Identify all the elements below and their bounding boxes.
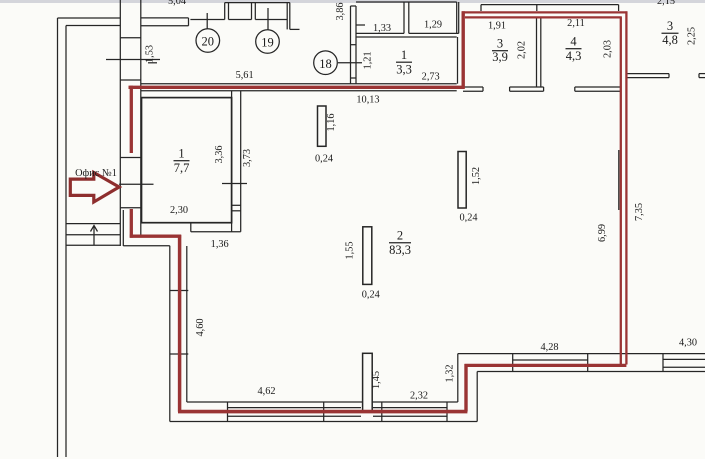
far right window tick [662, 354, 664, 372]
top corridor wall lower line [141, 25, 189, 27]
svg-text:3,73: 3,73 [242, 149, 253, 167]
wire left corner top inner [66, 25, 120, 27]
room 1 (7,7) outline [142, 98, 232, 223]
room 1,29 bottom wall [409, 32, 459, 34]
corridor south wall upper black line [141, 83, 457, 85]
svg-text:0,24: 0,24 [459, 213, 477, 224]
top niche right wall inner [289, 3, 291, 30]
room 2 east wall black segment [618, 150, 620, 210]
interior column 1,55 [363, 227, 372, 285]
svg-text:1,91: 1,91 [488, 21, 506, 32]
svg-text:3,9: 3,9 [492, 50, 508, 64]
top niche right tick [290, 28, 300, 30]
bottom window tick 2 [381, 402, 383, 422]
svg-text:1,21: 1,21 [362, 51, 373, 69]
room 2 west wall inner line [186, 246, 188, 402]
wall column A right line [140, 0, 142, 235]
red boundary east vertical outer [625, 11, 627, 364]
svg-text:1,32: 1,32 [445, 364, 456, 382]
rooms 3-4 bottom wall stub 1 lower [463, 90, 483, 92]
room 1,33 notch stub [356, 24, 365, 26]
svg-text:4,60: 4,60 [195, 318, 206, 336]
room label 1/7,7 bar [174, 160, 190, 162]
wall column A door jamb lower [120, 207, 141, 209]
svg-text:2,03: 2,03 [603, 40, 614, 58]
svg-text:2,15: 2,15 [657, 0, 675, 7]
west wall window jamb upper [170, 290, 189, 292]
divider rooms 3/4 left line [536, 19, 538, 88]
room 1,29 right wall inner [458, 2, 460, 33]
wire left corner top outer [58, 17, 121, 19]
top niche bottom edge right [255, 19, 287, 21]
stair step line 1 [66, 223, 120, 225]
bottom window mullion tick [323, 402, 325, 422]
svg-text:4: 4 [570, 35, 577, 49]
red boundary top-left horizontal [129, 86, 465, 89]
room label 4/4,3 bar [566, 48, 582, 50]
svg-text:10,13: 10,13 [356, 95, 379, 106]
svg-text:83,3: 83,3 [389, 243, 411, 257]
svg-text:19: 19 [261, 36, 274, 50]
right edge stub cap [698, 74, 700, 78]
room label 2/83,3 bar [389, 242, 411, 244]
wall column B tick lower [232, 210, 241, 212]
svg-text:0,24: 0,24 [315, 154, 333, 165]
lobby south wall line [123, 245, 170, 247]
rooms 3-4 bottom wall stub 2 lower [510, 90, 544, 92]
svg-text:2,02: 2,02 [517, 41, 528, 59]
svg-text:1,45: 1,45 [371, 371, 382, 389]
svg-text:3: 3 [497, 37, 503, 51]
bottom window tick 1 [227, 402, 229, 422]
svg-text:1: 1 [401, 48, 407, 62]
room 1,29 right wall outer [456, 2, 458, 33]
door dimension line at arrow [119, 183, 153, 185]
svg-text:1,53: 1,53 [145, 45, 156, 63]
wire left inner wall vertical [65, 26, 67, 458]
stair arrow head [91, 226, 98, 232]
room label 3/4,8 bar [662, 32, 679, 34]
rooms 3-4 top tick 2 [536, 5, 538, 11]
wall column A left line [119, 0, 121, 246]
dimension underline 1,53 [148, 62, 157, 64]
stub 3 left cap [574, 87, 576, 91]
divider wall 1,33/1,29 left [403, 2, 405, 33]
svg-text:0,24: 0,24 [362, 290, 380, 301]
rooms 3-4 bottom wall stub 3 lower [575, 90, 620, 92]
top corridor wall end cap [188, 18, 190, 26]
svg-text:7,7: 7,7 [174, 161, 190, 175]
wall column 1,45 in bottom wall [363, 353, 373, 411]
leader line room 20 [206, 13, 208, 29]
red boundary rooms34 left vertical [462, 11, 465, 89]
room label 1/3,3 bar [396, 61, 412, 63]
svg-text:2: 2 [397, 229, 403, 243]
south-east window glazing [513, 359, 588, 361]
red boundary left vertical upper [130, 86, 133, 153]
wall column B tick upper [232, 204, 241, 206]
bottom window tick 3 [446, 402, 448, 422]
rooms 3-4 bottom wall stub 3 upper [575, 86, 620, 88]
circle room 19 [256, 30, 280, 54]
rooms 3-4 top tick 3 [618, 5, 620, 11]
svg-text:4,8: 4,8 [662, 33, 678, 47]
red boundary step horizontal [130, 235, 181, 238]
top wall single segment [190, 19, 224, 21]
corridor south wall lower black line [141, 90, 457, 92]
south-east window tick right [587, 354, 589, 372]
svg-text:4,30: 4,30 [679, 338, 697, 349]
red boundary west long vertical [178, 235, 182, 412]
svg-text:Офис №1: Офис №1 [75, 168, 117, 179]
interior column 1,16 [318, 106, 327, 146]
bottom window glazing line c [373, 407, 447, 409]
svg-text:1,52: 1,52 [471, 167, 482, 185]
wall pair x350 top cap [351, 5, 357, 7]
stair step line 3 [66, 244, 120, 246]
divider wall 1,33/1,29 right [408, 2, 410, 33]
top niche top edge [225, 2, 290, 4]
svg-text:5,61: 5,61 [236, 70, 254, 81]
top niche mid wall left [251, 3, 253, 20]
room 1,33 bottom wall [356, 32, 404, 34]
step below room 1 horizontal [191, 231, 241, 233]
room 2 west wall outer line [169, 246, 171, 422]
room 1-3,3 top wall [356, 36, 457, 38]
svg-text:4,62: 4,62 [257, 386, 275, 397]
wall pair x350 right line [355, 6, 357, 84]
wall pair door jamb upper [351, 44, 357, 46]
wall column A tick 2 [120, 79, 141, 81]
bottom window glazing line b [228, 415, 362, 417]
wall column B right line [240, 91, 242, 232]
svg-text:3,86: 3,86 [335, 2, 346, 20]
bottom wall outer line [170, 421, 477, 423]
dimension tick through wall B [222, 183, 247, 185]
west wall window jamb lower [170, 353, 189, 355]
rooms 3-4 bottom wall stub 1 upper [463, 86, 483, 88]
svg-text:1,33: 1,33 [373, 23, 391, 34]
rooms 3-4 top tick 1 [480, 5, 482, 11]
room 2 bottom inner wall line [187, 401, 458, 403]
svg-text:2,30: 2,30 [170, 205, 188, 216]
red boundary left vertical lower [130, 209, 133, 238]
svg-text:3: 3 [667, 19, 673, 33]
svg-text:4,3: 4,3 [566, 49, 582, 63]
wall pair x350 left line [350, 6, 352, 84]
svg-text:1: 1 [178, 147, 184, 161]
rooms 3-4 top outer black line [481, 4, 619, 6]
right stub end cap [668, 74, 670, 78]
divider rooms 3/4 right line [540, 19, 542, 88]
wall column B left line [231, 91, 233, 232]
wire left outer wall vertical [57, 18, 59, 457]
top niche right wall outer [286, 3, 288, 30]
red boundary jog vertical [464, 364, 467, 412]
stub 2 right cap [543, 87, 545, 91]
svg-text:5,04: 5,04 [168, 0, 186, 7]
interior column 1,52 [458, 152, 466, 209]
far right window glazing a [663, 358, 705, 360]
top niche left wall inner [228, 3, 230, 20]
dimension line 1,53 [106, 59, 160, 61]
svg-text:4,28: 4,28 [540, 342, 558, 353]
leader line room 19 [267, 8, 269, 30]
stub 1 end cap [482, 87, 484, 91]
red boundary top horizontal inner [465, 16, 622, 18]
room label 3/3,9 bar [492, 50, 508, 52]
right corridor wall stub lower [627, 77, 669, 79]
svg-text:18: 18 [319, 57, 332, 71]
svg-text:3,36: 3,36 [214, 145, 225, 163]
south-east wall top line [458, 353, 705, 355]
svg-text:1,29: 1,29 [424, 20, 442, 31]
svg-text:20: 20 [202, 35, 215, 49]
red boundary south-east horizontal [465, 364, 627, 367]
svg-text:2,11: 2,11 [567, 18, 585, 29]
svg-text:7,35: 7,35 [634, 203, 645, 221]
step below room 1 vertical [190, 223, 192, 232]
stair step line 2 [66, 234, 120, 236]
top niche bottom edge left [229, 19, 252, 21]
svg-text:2,73: 2,73 [422, 72, 440, 83]
wall column A door jamb upper [120, 157, 141, 159]
svg-text:1,16: 1,16 [326, 113, 337, 131]
svg-text:1,55: 1,55 [345, 241, 356, 259]
far right window glazing b [663, 366, 705, 368]
svg-text:2,32: 2,32 [410, 391, 428, 402]
bottom wall jog vertical inner [457, 354, 459, 402]
stair direction arrow shaft [93, 226, 95, 245]
red boundary bottom horizontal [178, 410, 467, 414]
svg-text:1,36: 1,36 [211, 239, 229, 250]
top gray screenshot strip [0, 0, 705, 3]
leader line room 18 [338, 62, 362, 64]
bottom window glazing line a [228, 407, 362, 409]
svg-text:2,25: 2,25 [687, 27, 698, 45]
south-east window tick left [512, 354, 514, 372]
right corridor wall stub upper [627, 73, 669, 75]
svg-text:6,99: 6,99 [597, 224, 608, 242]
right edge stub upper [699, 73, 705, 75]
svg-text:3,3: 3,3 [396, 63, 412, 77]
wall pair door jamb lower [351, 77, 357, 79]
wall column A tick 1 [120, 37, 141, 39]
top corridor wall upper line [141, 17, 189, 19]
top niche left wall outer [224, 3, 226, 20]
circle room 18 [314, 51, 338, 75]
bottom wall jog vertical outer [476, 372, 478, 422]
red boundary top horizontal outer [462, 11, 628, 13]
room 1-3,3 right wall [457, 37, 459, 84]
bottom window glazing line d [373, 415, 447, 417]
right edge stub lower [699, 77, 705, 79]
wall column A inner lobby line [122, 210, 124, 246]
red boundary east vertical inner [620, 17, 622, 366]
stub 2 end caps [509, 87, 511, 91]
rooms 3-4 bottom wall stub 2 upper [510, 86, 544, 88]
south-east wall bottom line [477, 371, 705, 373]
office entrance arrow [70, 173, 119, 203]
top edge above rooms 1,33 and 1,29 [356, 1, 457, 3]
circle room 20 [196, 29, 220, 53]
top niche mid wall right [254, 3, 256, 20]
